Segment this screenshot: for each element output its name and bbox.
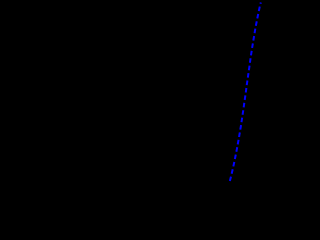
blue dashed curve — [230, 3, 261, 182]
